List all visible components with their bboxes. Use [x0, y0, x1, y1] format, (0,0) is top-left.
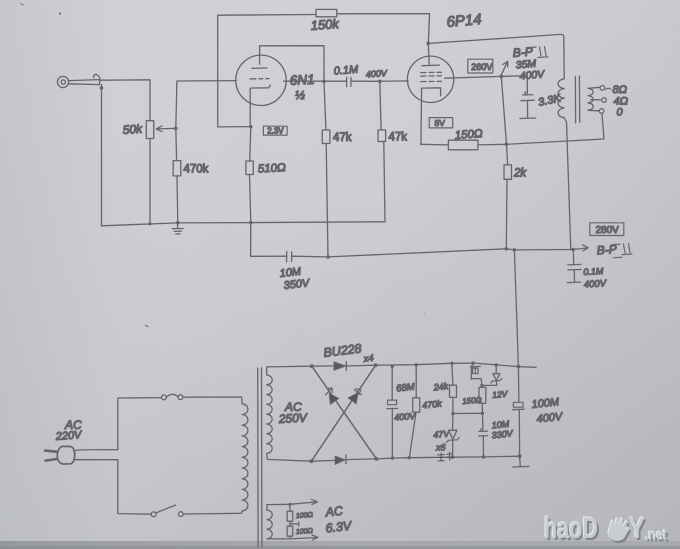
wire D1 to bridge top-right node	[346, 364, 375, 367]
arrow B+ out	[573, 245, 588, 251]
wire 470k bottom to rail	[176, 176, 179, 223]
resistor R9 24k	[450, 363, 457, 413]
node R8 bottom	[408, 456, 411, 459]
wire switch to transformer primary	[183, 511, 242, 514]
ground symbol PSU	[513, 456, 529, 467]
diode D1	[334, 362, 346, 371]
svg-text:Y: Y	[629, 512, 645, 545]
node 2k top junction	[505, 143, 509, 147]
svg-text:0: 0	[617, 107, 624, 119]
svg-text:250V: 250V	[277, 410, 308, 426]
node 510R on rail	[249, 221, 253, 225]
node regulator output	[480, 384, 483, 387]
wire cathode to 510R	[250, 127, 251, 161]
svg-text:0.1M: 0.1M	[333, 64, 359, 78]
svg-text:.net: .net	[645, 527, 667, 544]
svg-text:150Ω: 150Ω	[454, 128, 483, 142]
svg-text:6N1: 6N1	[289, 72, 315, 88]
svg-text:100Ω: 100Ω	[296, 528, 314, 536]
capacitor C2 10M 350V plates	[287, 252, 292, 263]
wire 510R bottom to rail	[250, 175, 251, 223]
wire OPT primary bottom down to B+	[564, 118, 571, 250]
wire coupling cap to 6P14 grid	[351, 80, 408, 82]
label 8V box	[429, 118, 453, 128]
svg-text:470k: 470k	[184, 164, 209, 176]
capacitor C4 0.1M at B+	[567, 250, 581, 283]
capacitor C5 68M	[387, 366, 398, 458]
svg-text:260V: 260V	[471, 62, 492, 72]
wire screen node down to 2k	[501, 76, 507, 164]
transformer T1 primary winding	[242, 404, 248, 511]
tube V1 grid dashes	[250, 78, 269, 80]
label B-P II	[512, 45, 548, 60]
node cathode junction	[249, 125, 252, 128]
wire plate row to coupling cap	[284, 80, 347, 82]
svg-text:AC: AC	[324, 504, 345, 520]
OPT tap 8 ohm	[588, 86, 611, 91]
wire plug live	[75, 398, 162, 451]
tube V2 screen lead wire	[445, 76, 502, 78]
node B+ drop junction	[513, 248, 517, 252]
watermark haoDIY.net	[543, 511, 669, 547]
node 0.1M cap junction	[571, 248, 575, 252]
potentiometer VR1 50k body	[146, 121, 153, 139]
wire 6N1 plate top link	[260, 46, 324, 82]
node C6 bottom	[482, 455, 485, 458]
capacitor C1 0.1M 400V plates	[347, 77, 351, 86]
node input ground junction	[100, 86, 104, 90]
node bridge bottom-left	[310, 459, 314, 463]
svg-text:47V: 47V	[433, 429, 451, 440]
label BU228 x4	[323, 341, 375, 365]
wire 2k bottom to B+ row	[505, 179, 508, 249]
svg-text:50k: 50k	[122, 122, 143, 137]
wire B+ drop to PSU rail	[514, 250, 518, 367]
wire divider junction to 150R leg	[453, 412, 483, 414]
wire rail end up to 47k R5 bottom	[384, 142, 385, 222]
tube V2 cathode box	[422, 88, 441, 96]
wire C3 to ground stub	[527, 101, 529, 118]
resistor R10 150R	[479, 385, 486, 413]
paper speck marks	[20, 3, 425, 327]
tube V2 plate lead	[427, 43, 430, 64]
tube V2 grid dashes	[421, 72, 442, 76]
arrow heater AC top	[290, 499, 318, 504]
pot wiper arrow	[156, 126, 176, 132]
diode D4 on diagonal	[311, 365, 375, 461]
resistor R4 47k plate load	[322, 81, 330, 257]
label 2.3V box	[263, 126, 287, 135]
node R8 top	[415, 363, 418, 366]
resistor R11 100R	[287, 504, 293, 526]
arrow to B-P	[501, 61, 507, 74]
wire rail to D2	[311, 459, 335, 462]
transformer T1 core	[258, 368, 262, 547]
fuse F1	[162, 394, 183, 400]
arrow heater AC bottom	[290, 535, 318, 540]
resistor R1 470k	[173, 161, 181, 176]
wire wiper up to 6N1 grid	[176, 81, 236, 129]
node C7 bottom	[518, 454, 522, 458]
wire cathode to feedback branch	[218, 126, 251, 128]
label 280V box	[590, 223, 624, 236]
wire cathode to 150R	[421, 143, 449, 146]
wire screen node to C3	[501, 76, 527, 95]
node R9 top	[450, 362, 453, 365]
wire jack sleeve down to ground rail	[101, 85, 103, 226]
transformer T1 heater winding	[267, 510, 272, 539]
wire fuse to transformer primary	[183, 397, 242, 404]
wire HV top to rectifier rail	[267, 366, 312, 375]
node 2k bottom	[505, 247, 509, 251]
tube V2 6P14 envelope	[407, 56, 453, 102]
wire input top to volume pot	[100, 80, 150, 121]
OPT tap 4 ohm	[591, 98, 607, 103]
wire cathode line down to bypass row	[251, 223, 287, 257]
tube V2 screen dashes	[421, 80, 442, 82]
wire 6P14 plate to OPT primary	[428, 34, 564, 78]
resistor R5 47k grid leak	[378, 81, 386, 141]
svg-text:150Ω: 150Ω	[462, 395, 482, 406]
switch S1	[151, 505, 183, 517]
transformer T2 core	[575, 76, 579, 123]
svg-text:47k: 47k	[333, 132, 352, 144]
input jack J1	[57, 76, 99, 87]
wire pot bottom to ground rail	[149, 139, 151, 224]
svg-text:0.1M: 0.1M	[583, 266, 604, 277]
svg-text:280V: 280V	[596, 225, 620, 236]
resistor R8 470k bleeder	[409, 365, 419, 458]
zener Z2 12V	[482, 363, 502, 385]
wire heater bottom lead	[267, 538, 290, 540]
diode D3 on diagonal	[312, 366, 377, 459]
heater center tap stub	[290, 522, 299, 526]
resistor R2 150k feedback	[316, 9, 337, 16]
capacitor C6 10M 330V	[479, 413, 488, 457]
svg-text:x4: x4	[362, 353, 374, 365]
node divider junction	[451, 412, 454, 415]
OPT tap 0	[588, 109, 604, 114]
node wiper junction	[174, 127, 178, 131]
wire D2 to bridge bottom-right node	[346, 458, 377, 461]
label B-P II lower	[596, 242, 632, 258]
wire hop hook at input node	[94, 74, 100, 81]
resistor R7 2k	[504, 165, 512, 179]
node 150R bottom junction	[481, 412, 484, 415]
tube V1 plate bar	[252, 67, 267, 69]
svg-text:220V: 220V	[54, 429, 83, 443]
svg-text:8Ω: 8Ω	[613, 84, 628, 96]
svg-text:470k: 470k	[422, 398, 443, 410]
svg-text:400V: 400V	[365, 68, 388, 80]
label 260V box	[468, 59, 493, 73]
svg-text:12V: 12V	[492, 389, 509, 400]
PSU bottom rail	[376, 456, 519, 459]
svg-text:100Ω: 100Ω	[296, 512, 314, 520]
svg-text:47k: 47k	[389, 132, 408, 144]
wire plug neutral	[75, 460, 151, 515]
wire heater top lead	[267, 504, 290, 510]
wire bypass row to B+ node	[292, 249, 507, 257]
svg-text:6.3V: 6.3V	[325, 519, 354, 536]
tube V1 6N1 envelope	[236, 55, 286, 105]
tube V2 cathode lead	[420, 96, 423, 145]
wire feedback riser	[218, 15, 316, 127]
wire rail to D1	[312, 365, 334, 367]
watermark hand glyph	[606, 516, 632, 544]
svg-text:8V: 8V	[435, 118, 446, 128]
tube V1 cathode	[250, 85, 270, 126]
wire B+ row to arrow	[506, 249, 573, 250]
svg-text:150k: 150k	[310, 16, 341, 33]
wire wiper down to 470k R1	[175, 128, 178, 160]
node 6P14 plate junction	[426, 42, 430, 46]
svg-text:x6: x6	[435, 443, 446, 453]
svg-text:haoD: haoD	[544, 512, 598, 545]
svg-text:2.3V: 2.3V	[267, 127, 284, 136]
wire 0 tap down to cathode feedback row	[507, 113, 604, 144]
wire 150R to 2k node	[478, 143, 507, 146]
svg-text:510Ω: 510Ω	[258, 162, 287, 175]
tube V1 plate lead	[259, 46, 261, 64]
zener chain Z1 47V x6	[446, 414, 459, 458]
node heater top junction	[288, 503, 291, 506]
tube V2 plate bar	[422, 64, 440, 67]
node bridge top-right	[374, 363, 378, 367]
diode D2	[335, 455, 346, 465]
svg-text:68M: 68M	[396, 382, 416, 395]
capacitor C3 35M plates	[521, 92, 534, 101]
svg-text:24k: 24k	[432, 381, 449, 393]
node 47k R4 bottom junction	[326, 255, 330, 259]
node screen junction	[499, 75, 503, 79]
resistor R3 510R	[246, 161, 253, 175]
ground symbol GND1	[172, 223, 183, 234]
wire HV bottom to lower rail	[267, 453, 312, 461]
svg-text:½: ½	[295, 88, 305, 102]
node C5 top	[391, 365, 394, 368]
resistor R6 150R	[448, 140, 478, 150]
node B+ rail drop	[517, 365, 521, 369]
wire ground rail (first stage)	[102, 222, 386, 226]
resistor R12 100R	[287, 526, 293, 539]
PSU top rail B+	[376, 363, 536, 367]
node 470k on rail	[176, 221, 180, 225]
transformer T2 OPT primary winding	[558, 79, 564, 118]
node zener bottom	[451, 456, 454, 459]
ground bar under C3	[520, 117, 536, 120]
transformer T1 HV secondary winding	[267, 375, 272, 453]
node grid leak junction	[378, 80, 382, 84]
node bridge top-left	[310, 364, 314, 368]
svg-text:400V: 400V	[584, 278, 608, 290]
AC plug P1	[45, 446, 75, 464]
node bridge bottom-right	[375, 457, 379, 461]
capacitor C7 100M 400V	[513, 367, 525, 457]
wire 150k to 6P14 plate	[337, 14, 430, 44]
node plate to coupling junction	[322, 80, 326, 84]
node pot bottom on rail	[148, 222, 151, 225]
transformer T2 secondary winding	[588, 88, 593, 110]
transistor Q1 pass device	[471, 361, 482, 385]
node C5 bottom	[391, 456, 394, 459]
label AC 250V	[277, 400, 308, 426]
svg-text:6P14: 6P14	[446, 11, 482, 31]
label series (chinese scribble)	[438, 452, 453, 461]
svg-text:2k: 2k	[513, 168, 527, 180]
